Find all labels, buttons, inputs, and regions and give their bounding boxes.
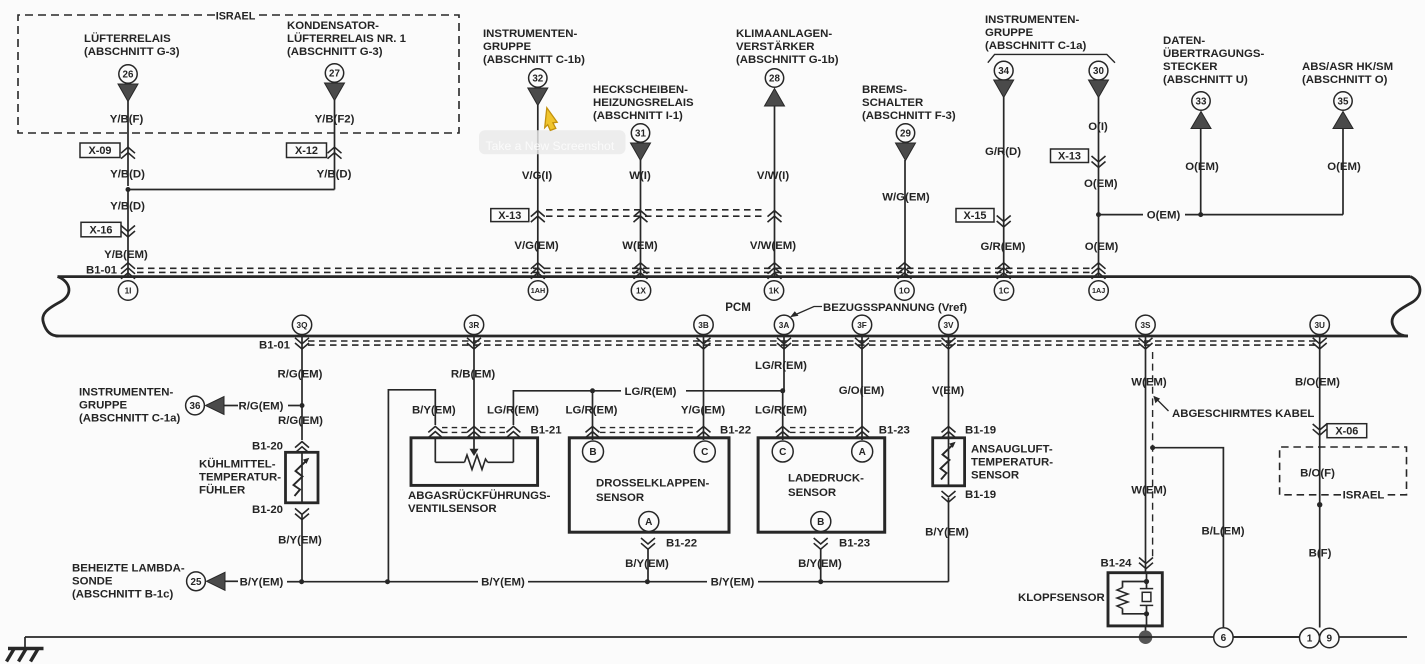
pin 3S harness chevrons (1139, 338, 1153, 349)
svg-text:BREMS-: BREMS- (862, 84, 907, 96)
ground symbol (24, 637, 26, 649)
svg-text:O(EM): O(EM) (1147, 210, 1181, 222)
svg-text:B1-20: B1-20 (252, 504, 283, 516)
PCM pin circle 1AJ (1089, 281, 1108, 300)
svg-text:B/Y(EM): B/Y(EM) (925, 527, 969, 539)
wire G/R(D) (1003, 97, 1005, 276)
svg-text:3R: 3R (469, 321, 480, 330)
PCM pin circle 3B (694, 315, 713, 334)
arrow 25 (pointing left) (207, 572, 226, 590)
arrow 33 (pointing up) (1191, 112, 1211, 129)
svg-text:B1-21: B1-21 (531, 425, 563, 437)
ISRAEL dashed box (right) (1280, 447, 1407, 495)
ground splice dot (big) (1139, 630, 1153, 644)
wire O(EM) horizontal (1099, 214, 1144, 216)
svg-text:LG/R(EM): LG/R(EM) (487, 405, 539, 417)
svg-text:Take a New Screenshot: Take a New Screenshot (486, 139, 615, 153)
svg-text:KÜHLMITTEL-: KÜHLMITTEL- (199, 458, 276, 471)
svg-text:ANSAUGLUFT-: ANSAUGLUFT- (971, 444, 1053, 456)
svg-text:LG/R(EM): LG/R(EM) (566, 405, 618, 417)
svg-text:SONDE: SONDE (72, 576, 113, 588)
pin circle A (LADEDRUCK) (852, 441, 873, 462)
svg-text:SENSOR: SENSOR (596, 492, 644, 504)
svg-text:(ABSCHNITT I-1): (ABSCHNITT I-1) (593, 110, 683, 122)
resistor zigzag (KLOPF) (1117, 588, 1128, 609)
svg-text:GRUPPE: GRUPPE (79, 400, 128, 412)
pin 3F harness chevrons (855, 338, 869, 349)
intake air temp sensor box (ANSAUGLUFT) (933, 438, 965, 486)
wire B/Y(EM) from DROSSEL A (647, 549, 649, 582)
ground circle 6 (1214, 628, 1233, 647)
svg-text:B1-22: B1-22 (666, 538, 697, 550)
label ABGESCHIRMTES KABEL with arrow (1156, 399, 1169, 412)
connector circle 28 (765, 69, 783, 87)
wire B/Y(EM) from sensor (301, 515, 303, 582)
wire G/O(EM) from 3F (861, 337, 863, 440)
pin 3U harness chevrons (1313, 338, 1327, 349)
svg-text:SCHALTER: SCHALTER (862, 97, 923, 109)
PCM left break squiggle (43, 277, 69, 336)
PCM pin circle 3S (1136, 315, 1155, 334)
wire LG/R(EM) down to DROSSEL B (592, 391, 594, 440)
connector circle 35 (1334, 92, 1352, 110)
throttle position sensor box (DROSSEL) (569, 438, 729, 532)
svg-text:C: C (701, 447, 708, 458)
svg-text:Y/B(D): Y/B(D) (110, 169, 145, 181)
arrow 36 (pointing left) (206, 397, 225, 415)
svg-text:C: C (779, 447, 786, 458)
svg-text:B/O(EM): B/O(EM) (1295, 377, 1340, 389)
svg-text:INSTRUMENTEN-: INSTRUMENTEN- (79, 387, 173, 399)
svg-text:31: 31 (635, 129, 646, 140)
connector X-13 (main row) (491, 209, 529, 222)
connector circle 32 (529, 69, 547, 87)
svg-text:27: 27 (329, 69, 340, 80)
PCM module bottom edge (56, 335, 1408, 338)
pin circle B (583, 441, 604, 462)
arrow 35 (pointing up) (1333, 112, 1353, 129)
arrow 32 (528, 88, 548, 106)
knock sensor internals (1146, 573, 1148, 582)
svg-text:V/G(I): V/G(I) (522, 170, 553, 182)
pin circle A (639, 512, 659, 532)
junction node O(EM) (1096, 212, 1101, 217)
pin B chevrons + B1-23 (814, 538, 828, 549)
svg-text:ÜBERTRAGUNGS-: ÜBERTRAGUNGS- (1163, 47, 1264, 60)
svg-text:29: 29 (900, 129, 911, 140)
boost pressure sensor box (LADEDRUCK) (758, 438, 885, 532)
svg-text:3V: 3V (943, 321, 954, 330)
svg-text:32: 32 (532, 74, 543, 85)
svg-text:B: B (589, 447, 596, 458)
svg-text:G/O(EM): G/O(EM) (839, 385, 885, 397)
svg-text:B1-20: B1-20 (252, 441, 283, 453)
wire O(EM) from 35 (1342, 128, 1344, 215)
wire LG/R(EM) from 3A (783, 337, 785, 391)
PCM pin circle 3A (774, 315, 793, 334)
svg-text:TEMPERATUR-: TEMPERATUR- (971, 457, 1053, 469)
svg-text:(ABSCHNITT G-3): (ABSCHNITT G-3) (287, 46, 383, 58)
wire R/G(EM) to 36 (224, 405, 238, 407)
wire Y/G(EM) from 3B (703, 337, 705, 440)
svg-text:ABGASRÜCKFÜHRUNGS-: ABGASRÜCKFÜHRUNGS- (408, 489, 551, 502)
svg-text:LÜFTERRELAIS: LÜFTERRELAIS (84, 32, 171, 45)
svg-text:B/Y(EM): B/Y(EM) (625, 558, 669, 570)
svg-text:HEIZUNGSRELAIS: HEIZUNGSRELAIS (593, 97, 694, 109)
connector circle 25 (187, 572, 206, 591)
yellow cursor (545, 108, 558, 131)
svg-text:(ABSCHNITT C-1b): (ABSCHNITT C-1b) (483, 54, 585, 66)
potentiometer inside ABGAS box (434, 438, 436, 463)
svg-text:LG/R(EM): LG/R(EM) (755, 360, 807, 372)
svg-text:A: A (645, 517, 652, 528)
svg-text:GRUPPE: GRUPPE (483, 41, 532, 53)
svg-text:X-16: X-16 (89, 224, 112, 236)
connector X-12 (287, 143, 327, 158)
thermistor symbol (KUEHLMITTEL) (301, 452, 303, 503)
knock sensor box (KLOPFSENSOR) (1108, 573, 1162, 626)
svg-text:(ABSCHNITT G-3): (ABSCHNITT G-3) (84, 46, 180, 58)
svg-text:B1-01: B1-01 (259, 340, 291, 352)
connector circle 27 (325, 64, 343, 82)
svg-text:35: 35 (1338, 97, 1349, 108)
svg-text:26: 26 (123, 70, 134, 81)
grouping bracket over 34 and 30 (988, 54, 1115, 62)
pin 3R harness chevrons (467, 338, 481, 349)
svg-text:Y/B(D): Y/B(D) (317, 169, 352, 181)
pin circle C (694, 441, 715, 462)
svg-text:B/Y(EM): B/Y(EM) (711, 577, 755, 589)
svg-text:(ABSCHNITT U): (ABSCHNITT U) (1163, 74, 1248, 86)
connector circle 31 (631, 124, 649, 142)
svg-text:GRUPPE: GRUPPE (985, 27, 1034, 39)
svg-text:KLIMAANLAGEN-: KLIMAANLAGEN- (736, 28, 832, 40)
svg-text:SENSOR: SENSOR (788, 487, 836, 499)
svg-text:30: 30 (1093, 66, 1104, 77)
junction node shield drain (1150, 445, 1155, 450)
svg-text:Y/B(EM): Y/B(EM) (104, 249, 148, 261)
svg-text:TEMPERATUR-: TEMPERATUR- (199, 472, 281, 484)
connector circle 26 (119, 65, 137, 83)
wire V/G(I) (537, 105, 539, 276)
thermistor symbol (ANSAUGLUFT) (948, 438, 950, 486)
svg-text:LG/R(EM): LG/R(EM) (755, 405, 807, 417)
svg-text:R/B(EM): R/B(EM) (451, 369, 495, 381)
B1-21 dashed connector line (442, 427, 468, 429)
svg-text:FÜHLER: FÜHLER (199, 484, 245, 497)
svg-text:6: 6 (1221, 633, 1227, 644)
svg-text:VERSTÄRKER: VERSTÄRKER (736, 40, 814, 53)
svg-text:(ABSCHNITT B-1c): (ABSCHNITT B-1c) (72, 589, 173, 601)
svg-text:O(EM): O(EM) (1084, 178, 1118, 190)
svg-text:B: B (817, 517, 824, 528)
harness dashed pair above PCM (137, 267, 1094, 269)
svg-text:A: A (859, 447, 866, 458)
svg-text:X-09: X-09 (88, 145, 111, 157)
svg-text:1C: 1C (999, 287, 1010, 296)
svg-text:O(EM): O(EM) (1327, 161, 1361, 173)
svg-text:1: 1 (1307, 634, 1313, 645)
wire B/L(EM) shield drain (1153, 448, 1224, 628)
wire R/B(EM) from 3R (473, 337, 475, 437)
wire R/G(EM) from 3Q (301, 337, 303, 440)
junction node at 33 drop (1198, 212, 1203, 217)
svg-text:ISRAEL: ISRAEL (1343, 490, 1385, 502)
svg-text:V/W(I): V/W(I) (757, 170, 789, 182)
connector X-06 (1327, 424, 1367, 438)
arrow 31 (631, 143, 651, 161)
svg-text:9: 9 (1327, 634, 1333, 645)
PCM pin circle 3R (464, 315, 483, 334)
PCM pin circle 3Q (292, 315, 311, 334)
PCM pin circle 3U (1310, 315, 1329, 334)
pin circle C (LADEDRUCK) (772, 441, 793, 462)
pin circle B (LADEDRUCK) (811, 512, 831, 532)
svg-text:B1-01: B1-01 (86, 265, 118, 277)
wire LG/R(EM) horizontal (593, 390, 622, 392)
connector circle 30 (1089, 61, 1108, 80)
pin 3V harness chevrons (942, 338, 956, 349)
junction node LG/R at 3A wire (780, 388, 785, 393)
shield dashed line (1152, 352, 1154, 557)
PCM right break squiggle (1392, 277, 1420, 336)
svg-text:X-13: X-13 (498, 210, 521, 222)
svg-text:BEHEIZTE LAMBDA-: BEHEIZTE LAMBDA- (72, 563, 185, 575)
svg-text:G/R(D): G/R(D) (985, 146, 1021, 158)
PCM pin circle 1X (631, 281, 650, 300)
svg-text:B(F): B(F) (1309, 548, 1332, 560)
potentiometer wiper arrow (473, 438, 475, 450)
wire to ground (KLOPF) (1145, 626, 1147, 637)
svg-text:X-06: X-06 (1335, 426, 1358, 438)
svg-text:X-13: X-13 (1058, 151, 1081, 163)
svg-text:V/G(EM): V/G(EM) (514, 240, 559, 252)
svg-text:B1-23: B1-23 (839, 538, 870, 550)
wire O(I) (1098, 97, 1100, 276)
connector circle 34 (994, 61, 1013, 80)
svg-text:25: 25 (191, 577, 202, 588)
junction node bus/DROSSEL-A (645, 579, 650, 584)
svg-text:INSTRUMENTEN-: INSTRUMENTEN- (483, 28, 577, 40)
svg-text:LADEDRUCK-: LADEDRUCK- (788, 473, 864, 485)
PCM pin circle 1C (994, 281, 1013, 300)
piezo element (KLOPF) (1146, 582, 1148, 589)
svg-text:O(I): O(I) (1088, 121, 1108, 133)
connector X-13 (upper) (1051, 149, 1089, 163)
svg-text:O(EM): O(EM) (1185, 161, 1219, 173)
wire B/Y(EM) bypass (left of ABGAS box) (388, 390, 435, 582)
svg-text:ISRAEL: ISRAEL (216, 11, 256, 23)
svg-text:3B: 3B (698, 321, 709, 330)
arrow 30 (1089, 80, 1109, 98)
svg-text:Y/G(EM): Y/G(EM) (681, 405, 726, 417)
svg-text:1AJ: 1AJ (1092, 286, 1105, 295)
svg-text:(ABSCHNITT F-3): (ABSCHNITT F-3) (862, 110, 956, 122)
svg-text:R/G(EM): R/G(EM) (239, 401, 284, 413)
svg-text:ABS/ASR HK/SM: ABS/ASR HK/SM (1302, 61, 1393, 73)
PCM pin circle 1AH (528, 281, 547, 300)
svg-text:X-15: X-15 (963, 210, 986, 222)
svg-text:B/O(F): B/O(F) (1300, 468, 1335, 480)
svg-text:W(I): W(I) (629, 170, 651, 182)
wire B/Y(EM) from LADEDRUCK B (820, 549, 822, 582)
wire B/O(EM) from 3U (1319, 337, 1321, 628)
svg-text:3S: 3S (1140, 321, 1151, 330)
coolant temp sensor box (286, 452, 319, 503)
wire Y/B(F2) from 27 (334, 100, 336, 190)
arrow 26 (to fan relay) (118, 84, 138, 102)
junction node bus/LADEDRUCK-B (818, 579, 823, 584)
PCM pin circle 3V (939, 315, 958, 334)
svg-text:R/G(EM): R/G(EM) (278, 369, 323, 381)
svg-text:KONDENSATOR-: KONDENSATOR- (287, 20, 379, 32)
svg-text:B1-22: B1-22 (720, 425, 751, 437)
wire V(EM) from 3V (948, 337, 950, 437)
screenshot tooltip overlay (479, 130, 626, 154)
svg-text:1I: 1I (125, 287, 132, 296)
PCM pin circle 1O (895, 281, 914, 300)
svg-text:(ABSCHNITT G-1b): (ABSCHNITT G-1b) (736, 54, 839, 66)
connector circle 36 (186, 396, 205, 415)
svg-text:1AH: 1AH (531, 286, 545, 295)
svg-text:(ABSCHNITT O): (ABSCHNITT O) (1302, 74, 1388, 86)
svg-text:DROSSELKLAPPEN-: DROSSELKLAPPEN- (596, 478, 709, 490)
svg-text:36: 36 (190, 401, 201, 412)
svg-text:3U: 3U (1314, 321, 1325, 330)
svg-text:LG/R(EM): LG/R(EM) (625, 386, 677, 398)
PCM module top edge (58, 275, 1411, 278)
svg-text:DATEN-: DATEN- (1163, 35, 1205, 47)
svg-text:3A: 3A (779, 321, 790, 330)
connector circle 29 (896, 124, 914, 142)
svg-text:1X: 1X (636, 287, 647, 296)
wire Y/B(F) from 26 (127, 101, 129, 186)
svg-text:W(EM): W(EM) (1131, 485, 1167, 497)
svg-text:PCM: PCM (725, 302, 751, 314)
svg-text:R/G(EM): R/G(EM) (278, 415, 323, 427)
svg-text:B1-24: B1-24 (1100, 558, 1132, 570)
wire B/Y(EM) from ANSAUGLUFT (948, 498, 950, 582)
svg-text:G/R(EM): G/R(EM) (981, 241, 1026, 253)
ground circle 9 (1320, 628, 1339, 647)
junction node Y/B(D) (126, 187, 131, 192)
svg-text:Y/B(F2): Y/B(F2) (315, 114, 355, 126)
arrow 27 (325, 83, 345, 101)
PCM pin circle 3F (852, 315, 871, 334)
svg-text:W(EM): W(EM) (1131, 377, 1167, 389)
svg-text:X-12: X-12 (295, 145, 318, 157)
svg-text:B1-23: B1-23 (879, 425, 910, 437)
arrow 34 (994, 80, 1014, 98)
svg-text:B/L(EM): B/L(EM) (1201, 526, 1244, 538)
svg-text:W(EM): W(EM) (622, 240, 658, 252)
PCM pin circle 1K (764, 281, 783, 300)
wire W/G(EM) (904, 160, 906, 276)
connector circle 33 (1192, 92, 1210, 110)
svg-text:Y/B(D): Y/B(D) (110, 201, 145, 213)
wire W(I) (640, 160, 642, 276)
ground circle 1 (1300, 628, 1320, 648)
svg-text:B1-19: B1-19 (965, 425, 996, 437)
svg-text:W/G(EM): W/G(EM) (882, 192, 930, 204)
svg-text:ABGESCHIRMTES KABEL: ABGESCHIRMTES KABEL (1172, 408, 1314, 420)
connector X-09 (80, 143, 120, 158)
svg-text:V/W(EM): V/W(EM) (750, 240, 796, 252)
svg-text:VENTILSENSOR: VENTILSENSOR (408, 503, 497, 515)
svg-text:3Q: 3Q (297, 321, 309, 330)
harness dashed pair below PCM (308, 340, 1316, 342)
pin 3Q harness chevrons (295, 338, 309, 349)
svg-text:B/Y(EM): B/Y(EM) (240, 576, 284, 588)
svg-text:LÜFTERRELAIS NR. 1: LÜFTERRELAIS NR. 1 (287, 32, 407, 45)
X-13 harness dashed pair (546, 209, 766, 211)
svg-text:HECKSCHEIBEN-: HECKSCHEIBEN- (593, 84, 688, 96)
svg-text:1O: 1O (899, 287, 911, 296)
EGR valve sensor box (ABGAS) (411, 438, 538, 486)
svg-text:(ABSCHNITT C-1a): (ABSCHNITT C-1a) (985, 40, 1086, 52)
arrow 28 (pointing up) (765, 89, 785, 107)
junction node R/G(EM) (300, 403, 305, 408)
svg-text:B/Y(EM): B/Y(EM) (481, 577, 525, 589)
svg-text:B/Y(EM): B/Y(EM) (412, 405, 456, 417)
svg-text:Y/B(F): Y/B(F) (110, 114, 144, 126)
arrow 29 (896, 143, 916, 161)
wire W(EM) from 3S (1145, 337, 1147, 573)
svg-text:B/Y(EM): B/Y(EM) (798, 558, 842, 570)
junction node LG/R at DROSSEL-B (590, 388, 595, 393)
wire O(EM) from 33 (1200, 128, 1202, 215)
svg-text:1K: 1K (769, 287, 780, 296)
connector X-15 (956, 209, 994, 223)
wire B/Y(EM) ground bus (302, 581, 478, 583)
svg-text:33: 33 (1196, 97, 1207, 108)
svg-text:STECKER: STECKER (1163, 61, 1217, 73)
svg-text:B/Y(EM): B/Y(EM) (278, 535, 322, 547)
svg-text:SENSOR: SENSOR (971, 470, 1019, 482)
pin 3A harness chevrons (777, 338, 791, 349)
svg-text:INSTRUMENTEN-: INSTRUMENTEN- (985, 14, 1079, 26)
svg-text:KLOPFSENSOR: KLOPFSENSOR (1018, 592, 1105, 604)
ISRAEL option dashed box (18, 15, 459, 133)
PCM pin circle 1I (118, 281, 137, 300)
wire V/W(I) (774, 106, 776, 276)
wire joining 27 branch to 26 branch (128, 189, 335, 191)
svg-text:3F: 3F (857, 321, 867, 330)
svg-text:(ABSCHNITT C-1a): (ABSCHNITT C-1a) (79, 413, 180, 425)
junction node B/Y(EM) left (299, 579, 304, 584)
wire B/Y(EM) to 25 (225, 580, 238, 582)
svg-text:B1-19: B1-19 (965, 489, 996, 501)
connector X-16 (81, 222, 121, 237)
ground bus line (25, 636, 1300, 638)
svg-text:O(EM): O(EM) (1085, 241, 1119, 253)
junction dot below ISRAEL box (1317, 502, 1322, 507)
svg-text:BEZUGSSPANNUNG (Vref): BEZUGSSPANNUNG (Vref) (823, 302, 967, 314)
pin 3B harness chevrons (697, 338, 711, 349)
svg-text:34: 34 (998, 66, 1009, 77)
svg-text:V(EM): V(EM) (932, 385, 964, 397)
svg-text:28: 28 (769, 74, 780, 85)
junction node bus/ABGAS (385, 579, 390, 584)
pin A chevrons + B1-22 (641, 538, 655, 549)
wire LG/R(EM) (right pin of ABGAS) (513, 391, 591, 425)
